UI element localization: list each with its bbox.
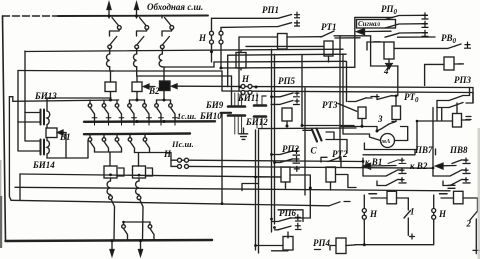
svg-text:РП4: РП4: [313, 238, 330, 248]
svg-text:Н: Н: [438, 209, 447, 219]
svg-text:БИ10: БИ10: [199, 111, 222, 121]
svg-text:БИ13: БИ13: [34, 91, 57, 101]
svg-text:Н: Н: [369, 209, 378, 219]
svg-text:РТ2: РТ2: [332, 149, 348, 159]
svg-text:БИ14: БИ14: [32, 160, 55, 170]
svg-text:Н: Н: [163, 149, 172, 159]
svg-text:2: 2: [466, 219, 472, 229]
svg-text:1с.ш.: 1с.ш.: [177, 111, 196, 121]
svg-text:РП2: РП2: [282, 144, 299, 154]
svg-text:С: С: [311, 146, 318, 156]
svg-text:3: 3: [377, 114, 383, 124]
svg-text:ПВ7: ПВ7: [414, 145, 433, 155]
svg-text:IIс.ш.: IIс.ш.: [171, 139, 194, 149]
svg-text:Н: Н: [198, 33, 207, 43]
svg-text:БИ9: БИ9: [205, 100, 224, 110]
svg-text:БИ11: БИ11: [237, 93, 259, 103]
svg-text:БИ12: БИ12: [245, 117, 268, 127]
svg-text:ПВ8: ПВ8: [449, 145, 468, 155]
svg-text:Обходная с.ш.: Обходная с.ш.: [147, 2, 203, 12]
svg-text:РП6: РП6: [279, 208, 296, 218]
svg-text:4: 4: [383, 66, 389, 76]
svg-text:Сигнал: Сигнал: [358, 20, 381, 28]
svg-text:1: 1: [410, 207, 415, 217]
svg-text:РП5: РП5: [278, 76, 295, 86]
svg-text:В1: В1: [59, 132, 71, 142]
svg-text:РП3: РП3: [454, 75, 471, 85]
svg-text:РТ1: РТ1: [321, 22, 337, 32]
svg-text:В2: В2: [148, 86, 160, 96]
svg-text:РТ3: РТ3: [322, 100, 338, 110]
svg-text:к В2: к В2: [410, 161, 428, 171]
svg-text:Н: Н: [241, 74, 250, 84]
svg-text:РП1: РП1: [262, 5, 279, 15]
svg-text:к В1: к В1: [365, 157, 382, 167]
svg-text:мА: мА: [381, 138, 391, 145]
